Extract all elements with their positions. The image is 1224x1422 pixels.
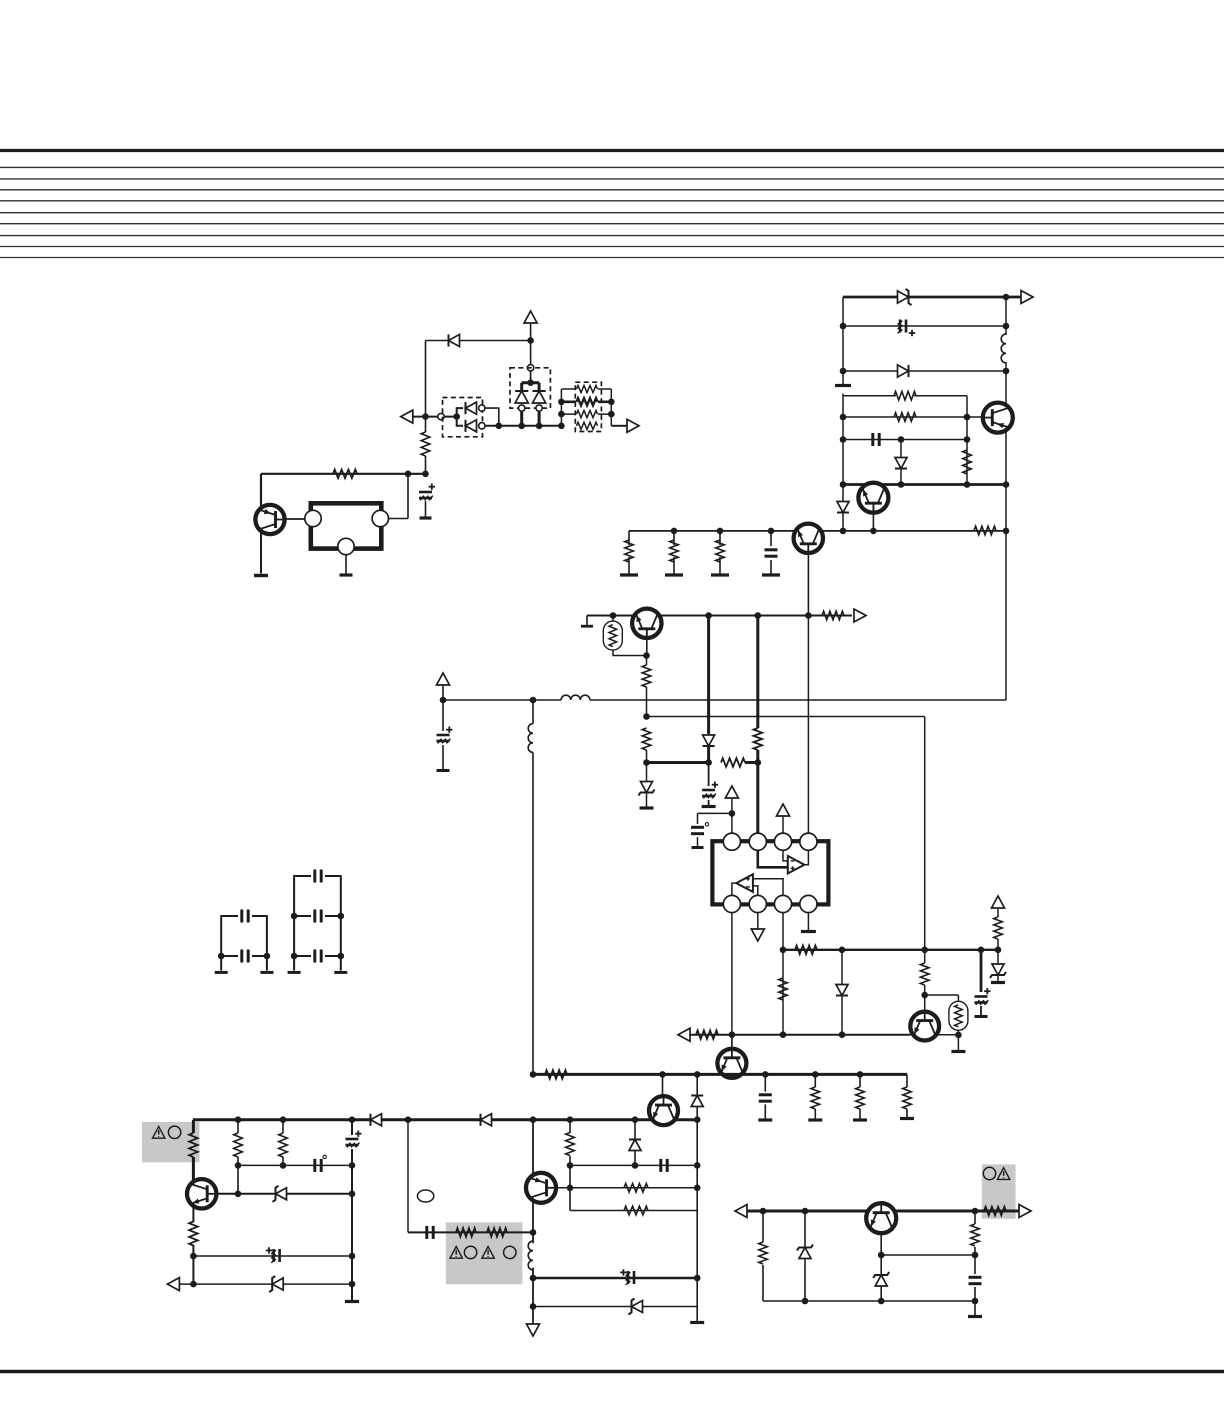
junct x975 b xyxy=(972,1298,979,1305)
bus wire y700 xyxy=(443,699,1006,701)
resistor rail x757 xyxy=(754,728,763,750)
resistor bias2 xyxy=(670,540,679,562)
bank dot l3 xyxy=(558,411,565,418)
resistor x783 xyxy=(779,978,788,1000)
gnd snubber cap xyxy=(758,1118,772,1121)
junction row2 right xyxy=(1003,323,1010,330)
resistor y1232 a xyxy=(456,1228,476,1237)
connector right-arrow secondary xyxy=(1019,1205,1031,1218)
connector up-triangle secondary xyxy=(437,673,450,685)
wire base row xyxy=(843,416,985,418)
junct bus2 left xyxy=(643,713,650,720)
rail x533 inductor xyxy=(532,700,534,1074)
junction at output column xyxy=(1003,294,1010,301)
thick rail x757 xyxy=(756,616,759,834)
x924 wires xyxy=(924,950,926,1012)
diode at rail xyxy=(837,502,849,513)
resistor thick row xyxy=(721,758,745,767)
cap group B frame xyxy=(294,876,341,971)
transistor Q7 (opto driver) xyxy=(910,1012,939,1041)
primary rail thick xyxy=(193,1118,697,1121)
junct pr5 xyxy=(530,1116,537,1123)
electrolytic cap x708 xyxy=(702,782,718,799)
junction reg right xyxy=(405,471,412,478)
x981 thick stub xyxy=(980,950,983,992)
diode rail x708 xyxy=(703,735,715,746)
inductor bus xyxy=(561,695,590,700)
junct q9 em2 xyxy=(190,1281,197,1288)
x998 wires xyxy=(997,909,999,981)
wire from up-triangle down to node xyxy=(530,324,532,368)
wire corner to transistor xyxy=(260,474,262,506)
end bar x981 xyxy=(975,1015,988,1018)
transistor Q5 (error) xyxy=(632,609,661,638)
transistor Q4 xyxy=(794,524,823,553)
connector left-arrow drive xyxy=(678,1028,690,1041)
junction bridge left on main wire xyxy=(518,423,525,430)
cap to end bar xyxy=(425,501,427,517)
resistor feedback row xyxy=(795,946,817,955)
op-amp U1a input wire from pin2 xyxy=(758,849,788,867)
wire input to fork xyxy=(413,416,457,418)
bank row3 wire xyxy=(561,413,611,415)
resistor x763 xyxy=(759,1242,768,1264)
wire y1165 mid xyxy=(570,1164,697,1166)
bridge diode D2a xyxy=(515,391,528,403)
zener rectifier top xyxy=(898,289,912,305)
junct x924 base xyxy=(921,992,928,999)
connector right-arrow (to load) xyxy=(627,419,639,432)
junct capB r1 xyxy=(338,913,345,920)
bank dot r2 xyxy=(608,399,615,406)
capacitor B2 xyxy=(315,910,321,923)
junct fb4 xyxy=(978,947,985,954)
gnd bias1 xyxy=(620,573,638,576)
gray highlight box 3 xyxy=(982,1164,1016,1218)
regulator pin right xyxy=(372,510,388,526)
cap negative bar xyxy=(420,516,432,519)
warning symbols box2 xyxy=(450,1247,462,1259)
junction in bridge xyxy=(527,379,534,386)
thick output wire top xyxy=(843,296,1021,299)
junct row x757 xyxy=(755,612,762,619)
junct row x808 xyxy=(805,612,812,619)
junct x646 thick row xyxy=(643,759,650,766)
connector left-arrow secondary xyxy=(735,1205,747,1218)
page header thick rule xyxy=(0,149,1224,152)
junct x352 b xyxy=(349,1253,356,1260)
IC pin2 bottom stub xyxy=(757,913,759,929)
wire y1306 xyxy=(533,1306,697,1308)
junct x533 a xyxy=(530,1275,537,1282)
junct sn0 xyxy=(530,1071,537,1078)
gnd bias2 xyxy=(665,573,683,576)
regulator block body xyxy=(311,503,382,548)
wire fork to upper diode xyxy=(457,408,463,417)
resistor bank R d xyxy=(577,422,598,429)
connector down-triangle IC pin2 xyxy=(751,929,764,941)
junction row3 right xyxy=(1003,368,1010,375)
diode primary rail B xyxy=(481,1114,492,1126)
triangle stub xyxy=(442,686,444,700)
wire row3 xyxy=(843,370,1006,372)
rail to node xyxy=(425,456,427,474)
thermistor wires xyxy=(613,616,647,656)
IC pin top 2 xyxy=(749,833,766,850)
junct q5 em xyxy=(643,652,650,659)
wire Q1 base to reg pin xyxy=(285,518,305,520)
bank row2 wire xyxy=(561,400,611,403)
wire y1284 xyxy=(179,1283,352,1285)
column x283 xyxy=(282,1120,284,1166)
junct m1188 a xyxy=(567,1185,574,1192)
bank left rail xyxy=(560,389,562,426)
ground IC pin4 xyxy=(801,930,816,933)
junct x805 xyxy=(802,1298,809,1305)
connector right-arrow output1 xyxy=(1021,291,1033,304)
resistor x998 xyxy=(994,917,1003,939)
bridge left pin xyxy=(519,405,525,411)
cap group A frame xyxy=(221,916,267,971)
transistor Q11 (secondary reg) xyxy=(866,1203,896,1233)
capacitor switch xyxy=(873,433,879,446)
gnd capB r xyxy=(334,971,347,974)
resistor y1232 b xyxy=(487,1228,507,1237)
vertical x697 diode column xyxy=(696,1074,698,1119)
junct capA l xyxy=(218,953,225,960)
left rail thick x193 xyxy=(192,1120,195,1181)
ground x998 xyxy=(991,981,1005,984)
resistor snubber 2 xyxy=(856,1087,865,1109)
junct br3 xyxy=(1003,528,1010,535)
column x783 down xyxy=(782,950,784,1035)
rail x352 xyxy=(351,1120,353,1300)
wire reg right pin up xyxy=(407,474,409,519)
resistor x238 xyxy=(234,1133,243,1157)
thick rail x708 xyxy=(707,616,710,763)
electrolytic cap y1256 xyxy=(266,1247,280,1263)
open node above bridge xyxy=(527,365,533,371)
junct capB r2 xyxy=(338,953,345,960)
IC U1 body xyxy=(712,841,828,904)
resistor snubber top xyxy=(894,391,916,400)
ground tick at row start xyxy=(581,625,593,628)
zener y1284 xyxy=(269,1276,283,1292)
junct q9 base right xyxy=(349,1191,356,1198)
resistor column switch xyxy=(966,417,968,485)
capacitor bias xyxy=(765,550,778,556)
ground x697 xyxy=(690,1321,704,1324)
diode x842 xyxy=(836,985,848,996)
junct q4b xyxy=(717,528,724,535)
resistor bias3 xyxy=(716,540,725,562)
junct capB l1 xyxy=(291,913,298,920)
bridge diode D2b xyxy=(533,391,546,403)
vertical x662 to Q8 xyxy=(662,1074,664,1096)
junct fb3 xyxy=(921,947,928,954)
junct q9 em1 xyxy=(190,1253,197,1260)
inductor output column xyxy=(1001,334,1006,363)
dashed box around bridge diodes D2 xyxy=(510,368,550,408)
junct m1165 b xyxy=(632,1162,639,1169)
connector down-triangle x533 xyxy=(527,1324,540,1336)
snubber cap column xyxy=(764,1074,766,1118)
capacitor y1165 mid xyxy=(661,1159,667,1172)
IC pin bottom 1 xyxy=(723,895,740,912)
diode switch xyxy=(895,458,907,469)
gnd capA l xyxy=(215,971,228,974)
junct pr2 xyxy=(280,1116,287,1123)
junct th top xyxy=(610,612,617,619)
transistor Q8 xyxy=(649,1096,678,1125)
diode row3 xyxy=(898,365,909,377)
junct fb2 xyxy=(839,947,846,954)
transistor Q6 xyxy=(717,1049,746,1078)
transistor Q10 xyxy=(526,1173,556,1203)
bank row1 wire xyxy=(561,388,611,390)
wire cap row xyxy=(843,439,967,441)
rail x697 bottom segment xyxy=(696,1120,698,1321)
resistor base row xyxy=(894,413,916,422)
wire to decoupling cap xyxy=(698,812,732,814)
regulator pin left xyxy=(305,510,321,526)
junct pr7 xyxy=(632,1116,639,1123)
snubber res column 1 xyxy=(814,1074,816,1118)
gray highlight box 1 xyxy=(142,1122,199,1162)
bridge left leg lower xyxy=(520,411,523,426)
drive row wire xyxy=(690,1034,911,1036)
junction rail r3 xyxy=(840,368,847,375)
junct pr8 xyxy=(694,1116,701,1123)
pin node right of D1b xyxy=(479,423,485,429)
TH2 stub top xyxy=(957,995,959,1050)
gnd snubber 2 xyxy=(853,1118,867,1121)
ground x646 xyxy=(640,806,654,809)
Q1 emitter down xyxy=(260,532,262,574)
ground under rail xyxy=(835,384,851,387)
x646 to junction xyxy=(646,750,648,763)
junct x533 b xyxy=(530,1303,537,1310)
junct ic vcc xyxy=(729,810,736,817)
IC pin bottom 3 xyxy=(774,895,791,912)
resistor snubber 3 xyxy=(903,1087,912,1109)
junct em1 xyxy=(840,481,847,488)
drive row right seg xyxy=(939,1034,959,1036)
junct TH2 bottom xyxy=(955,1032,962,1039)
snubber row thick wire xyxy=(533,1073,907,1076)
error amp row wire xyxy=(587,615,852,617)
resistor x924 xyxy=(920,963,929,985)
diode D1a xyxy=(466,402,477,414)
resistor bank R a xyxy=(577,385,598,392)
junct m1165 a xyxy=(567,1162,574,1169)
annotation ellipse xyxy=(417,1190,433,1202)
junction D1 output xyxy=(496,423,503,430)
wire y1301 xyxy=(763,1300,975,1302)
ground x708 xyxy=(702,805,716,808)
transistor Q1 (pass) xyxy=(255,505,284,534)
column x238 xyxy=(237,1120,239,1195)
junct y1278 right xyxy=(694,1275,701,1282)
IC pin4 bottom stub xyxy=(807,913,809,930)
resistor x975 xyxy=(971,1224,980,1246)
junct drive1 xyxy=(729,1031,736,1038)
wire y1255 xyxy=(881,1254,975,1256)
capacitor y1232 xyxy=(427,1226,433,1239)
wire reg bottom pin down xyxy=(345,555,347,574)
rail x533 lower xyxy=(532,1120,534,1324)
junct em4 xyxy=(1003,481,1010,488)
junct m1188 c xyxy=(694,1185,701,1192)
resistor drive row xyxy=(696,1030,718,1039)
IC pin3 bottom stub xyxy=(782,913,784,950)
transistor Q3 (switch) xyxy=(858,483,888,513)
wire from D1a to main line xyxy=(485,408,499,426)
junct bus1 left xyxy=(440,697,447,704)
snubber res column 3 xyxy=(906,1074,908,1117)
wire to TH2 xyxy=(925,994,959,996)
resistor to output rail xyxy=(974,526,996,535)
transistor Q9 (startup) xyxy=(187,1179,216,1208)
column x570 xyxy=(569,1120,571,1211)
decoupling cap stub xyxy=(697,813,699,846)
junct row x709 xyxy=(705,612,712,619)
rail x924 from bus2 xyxy=(924,717,926,950)
base return wire right xyxy=(822,530,1006,532)
junct x708 thick row xyxy=(705,759,712,766)
thick emitter row xyxy=(843,483,1006,486)
snubber res column 2 xyxy=(859,1074,861,1118)
electrolytic cap at regulator xyxy=(419,484,435,501)
junct sr1 xyxy=(760,1208,767,1215)
junct br2 xyxy=(870,528,877,535)
transistor Q2 (driver) xyxy=(983,403,1013,433)
junct pr4 xyxy=(405,1116,412,1123)
wire y1210 mid xyxy=(570,1210,697,1212)
electrolytic cap x981 xyxy=(975,988,991,1005)
end bar below cap xyxy=(437,769,450,772)
electrolytic cap left bus xyxy=(437,727,453,744)
junct sr2 xyxy=(802,1208,809,1215)
Q3 emitter down xyxy=(872,505,874,531)
capacitor B3 xyxy=(315,950,321,963)
junct y1232 xyxy=(530,1229,537,1236)
junct fb5 xyxy=(995,947,1002,954)
diode (top feedback) xyxy=(449,334,460,346)
Q5 emitter down xyxy=(646,629,648,655)
Q4 emitter long down xyxy=(807,553,809,616)
zener x646 xyxy=(639,782,655,796)
thick row y762 xyxy=(647,761,709,764)
junct capA r xyxy=(264,953,271,960)
connector up-triangle x998 xyxy=(992,896,1005,908)
thermistor TH1 xyxy=(603,621,622,650)
junction cap row left xyxy=(840,436,847,443)
IC pin bottom 4 xyxy=(800,895,817,912)
junction base left xyxy=(840,414,847,421)
IC pin top 1 xyxy=(723,833,740,850)
rail x408 down xyxy=(407,1120,409,1233)
junct q9 base xyxy=(235,1191,242,1198)
resistor output secondary xyxy=(984,1207,1006,1216)
junct x975 a xyxy=(972,1252,979,1259)
resistor Q5 emitter xyxy=(642,665,651,687)
ground stub at row start xyxy=(586,616,588,626)
wire regulator top xyxy=(261,473,426,475)
junction on vertical xyxy=(527,337,534,344)
IC pin top 3 xyxy=(774,833,791,850)
diode x635 xyxy=(629,1140,641,1151)
diode column switch xyxy=(900,440,902,485)
junct drive2 xyxy=(780,1031,787,1038)
electrolytic cap x352 xyxy=(346,1131,362,1148)
main wire after dual diode xyxy=(485,425,561,427)
junct em3 xyxy=(964,481,971,488)
wire reg right pin xyxy=(389,518,409,520)
capacitor x975 xyxy=(969,1277,982,1283)
resistor y1210 mid xyxy=(624,1206,648,1215)
wire left to diode xyxy=(426,340,531,342)
op-amp U1b wires xyxy=(732,879,783,896)
junct pr1 xyxy=(235,1116,242,1123)
junct x352 c xyxy=(349,1281,356,1288)
Q6 top stub xyxy=(731,1035,733,1049)
page footer thick rule xyxy=(0,1370,1224,1373)
bank dot l2 xyxy=(558,399,565,406)
resistor x646 lower xyxy=(642,728,651,750)
output column rail xyxy=(1005,297,1007,700)
zener x998 xyxy=(990,964,1006,978)
bank right rail xyxy=(610,389,612,426)
resistor Q9 emitter xyxy=(189,1222,198,1246)
ground below regulator xyxy=(340,573,353,576)
gnd snubber 1 xyxy=(808,1118,822,1121)
junct q4a xyxy=(671,528,678,535)
bridge top bar xyxy=(522,381,539,384)
column x763 xyxy=(762,1211,764,1301)
IC vcc stub xyxy=(731,799,733,834)
junct pr6 xyxy=(567,1116,574,1123)
resistor y1188 mid xyxy=(624,1184,648,1193)
resistor x570 xyxy=(566,1133,575,1156)
junct sn1 xyxy=(659,1071,666,1078)
diode primary rail A xyxy=(371,1114,382,1126)
junction C-reg xyxy=(422,471,429,478)
diode x697 upper xyxy=(691,1096,703,1107)
open node on input wire xyxy=(438,413,444,419)
ground TH2 xyxy=(951,1050,965,1053)
junct sn5 xyxy=(857,1071,864,1078)
rail below fork xyxy=(425,417,427,432)
feedback row wire xyxy=(783,949,998,951)
bridge right leg xyxy=(538,383,541,392)
capacitor B1 xyxy=(315,870,321,883)
zener x805 xyxy=(797,1245,813,1259)
resistor x283 xyxy=(279,1133,288,1157)
secondary rail thick xyxy=(747,1210,1019,1213)
Q9 emitter column xyxy=(192,1207,194,1285)
dashed box around resistor bank xyxy=(575,382,601,431)
gnd capB l xyxy=(288,971,301,974)
op-amp U1b (left-pointing) xyxy=(736,874,753,892)
resistor feedback xyxy=(333,470,357,479)
connector left-arrow (line input) xyxy=(401,410,413,423)
ground below Q1 xyxy=(254,574,268,577)
junct em2 xyxy=(898,481,905,488)
wire fork to lower diode xyxy=(457,417,463,426)
cap stubs xyxy=(442,700,444,769)
pin node right of D1a xyxy=(479,405,485,411)
